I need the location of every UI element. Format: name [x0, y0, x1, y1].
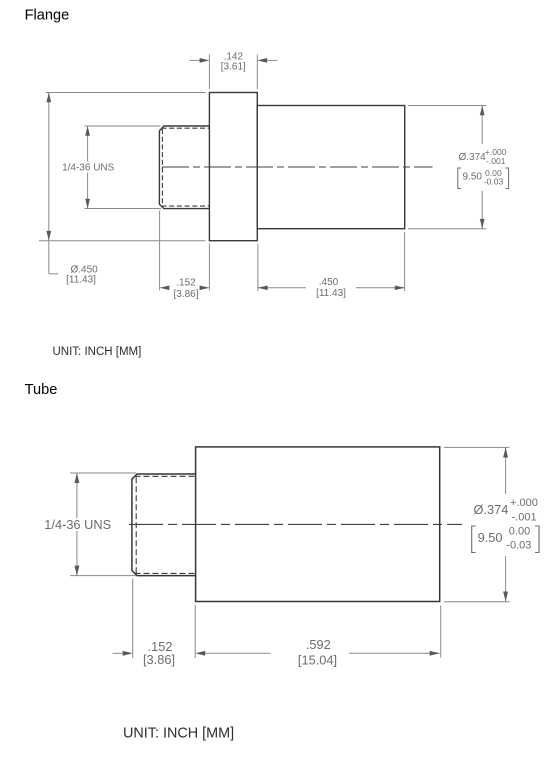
- svg-text:9.50: 9.50: [463, 172, 483, 183]
- svg-text:[3.86]: [3.86]: [173, 289, 198, 300]
- svg-text:UNIT: INCH [MM]: UNIT: INCH [MM]: [53, 346, 142, 358]
- tube threaded stub outline: [132, 474, 196, 576]
- svg-text:[15.04]: [15.04]: [298, 652, 337, 667]
- svg-text:+.000: +.000: [510, 497, 538, 509]
- svg-text:-0.03: -0.03: [506, 540, 531, 552]
- dimension 1/4-36 UNS tube thread: [70, 473, 136, 576]
- svg-text:[11.43]: [11.43]: [316, 288, 346, 299]
- dimension .142 [3.61] collar width: [190, 55, 278, 90]
- svg-text:1/4-36 UNS: 1/4-36 UNS: [44, 517, 111, 532]
- svg-text:.450: .450: [319, 277, 339, 288]
- dimension .450 [11.43] flange body length: [258, 232, 405, 291]
- dimension Ø.374 flange body diameter with tolerances: [408, 106, 486, 229]
- svg-text:UNIT: INCH [MM]: UNIT: INCH [MM]: [123, 725, 234, 741]
- tube centerline: [129, 523, 462, 525]
- svg-text:-.001: -.001: [512, 511, 537, 523]
- dimension .152 [3.86] tube stub length: [113, 579, 440, 659]
- svg-text:-.001: -.001: [486, 156, 506, 166]
- flange centerline: [162, 166, 433, 168]
- svg-text:Tube: Tube: [25, 382, 58, 398]
- svg-text:[3.86]: [3.86]: [143, 652, 175, 667]
- svg-text:[3.61]: [3.61]: [221, 62, 246, 73]
- flange collar outline: [209, 93, 257, 241]
- tube body outline: [196, 447, 440, 602]
- svg-text:Ø.374: Ø.374: [474, 502, 509, 517]
- svg-text:9.50: 9.50: [478, 530, 503, 545]
- dimension Ø.374 tube body diameter with tolerances: [444, 447, 510, 601]
- svg-text:1/4-36 UNS: 1/4-36 UNS: [62, 162, 115, 173]
- flange thread minor diameter hidden lines: [162, 128, 210, 206]
- tube thread minor diameter hidden lines: [135, 476, 196, 573]
- svg-text:.592: .592: [306, 637, 331, 652]
- svg-text:0.00: 0.00: [509, 525, 530, 537]
- dimension Ø.450 [11.43] collar diameter: [39, 93, 206, 274]
- svg-text:.152: .152: [176, 278, 196, 289]
- dimension .152 [3.86] flange stub length: [160, 211, 210, 291]
- svg-text:Flange: Flange: [25, 8, 70, 24]
- svg-text:-0.03: -0.03: [484, 177, 504, 187]
- svg-text:[11.43]: [11.43]: [66, 274, 96, 285]
- flange threaded stub outline: [159, 126, 209, 209]
- dimension 1/4-36 UNS thread: [85, 126, 162, 209]
- dimension .592 [15.04] tube body length: [440, 606, 442, 658]
- flange body cylinder outline: [257, 106, 404, 229]
- svg-text:Ø.374: Ø.374: [459, 152, 487, 163]
